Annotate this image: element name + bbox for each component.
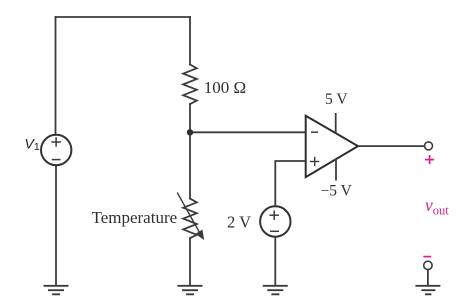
thermistor arrow [177,193,203,239]
negative supply pin [335,159,337,180]
resistor R1 100 ohm [183,65,197,105]
svg-text:−5 V: −5 V [321,183,353,200]
wire: 2V source up and right to op-amp non-inverting input [275,161,305,206]
voltage source V2 (2 V) circle [260,206,290,236]
magenta minus label at bottom terminal [423,256,431,258]
ground symbol (V1) [44,286,69,295]
wire: node to op-amp inverting input [190,131,306,133]
wire: right vertical top to resistor [189,17,191,65]
svg-text:V1: V1 [25,136,40,154]
op-amp U1 triangle [306,116,358,177]
svg-text:100 Ω: 100 Ω [204,78,246,97]
2V minus sign [270,230,279,232]
wire: bottom terminal to ground [427,270,429,286]
wire: left vertical to V1 top [55,17,57,134]
wire: thermistor to ground [189,238,191,285]
wire: 2V source bottom to ground [274,238,276,286]
wire: top horizontal [56,16,191,18]
voltage source V1 circle [41,135,71,165]
thermistor RT zigzag [183,199,197,239]
svg-text:5 V: 5 V [325,91,348,108]
output terminal circle [425,142,433,150]
bottom terminal circle [424,261,432,269]
svg-text:vout: vout [425,195,449,218]
wire: resistor to node [189,104,191,132]
node junction dot [187,129,193,135]
V1 minus sign [52,159,61,161]
wire: op-amp output [358,145,424,147]
svg-text:Temperature: Temperature [92,208,178,227]
ground symbol (thermistor) [178,286,203,295]
magenta plus label at output [423,155,434,257]
wire: V1 bottom to ground [55,166,57,285]
ground symbol (2V source) [263,286,288,295]
ground symbol (output terminal) [415,286,440,295]
wire: node down to thermistor [189,132,191,198]
positive supply pin [335,113,337,133]
V1 plus sign [51,137,61,159]
op-amp inverting input minus symbol [311,131,318,133]
svg-text:2 V: 2 V [227,213,251,232]
op-amp non-inverting input plus symbol [310,157,319,166]
2V plus sign [269,210,279,231]
